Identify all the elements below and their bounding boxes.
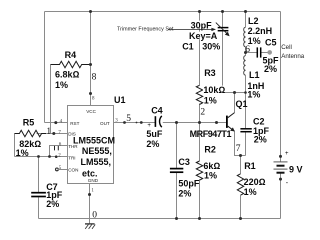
wire top VCC rail — [45, 11, 281, 13]
wire left border (VCC to RST) — [44, 12, 46, 123]
wire CON stub — [58, 169, 67, 171]
svg-text:1: 1 — [46, 127, 51, 137]
svg-text:R2: R2 — [204, 145, 216, 155]
svg-text:2%: 2% — [264, 64, 277, 74]
node wire mark a — [136, 122, 138, 124]
resistor R2 — [196, 145, 220, 181]
node R1 top — [239, 154, 242, 157]
svg-text:Key=A: Key=A — [189, 31, 218, 41]
node C3 bottom — [175, 217, 178, 220]
wire R4 left lead down to DIS node — [50, 65, 52, 134]
wire C7 vertical — [38, 157, 40, 219]
svg-text:Trimmer Frequency Set: Trimmer Frequency Set — [117, 26, 174, 32]
svg-text:C2: C2 — [253, 116, 265, 126]
svg-text:R1: R1 — [244, 161, 256, 171]
node rail/L2 — [244, 10, 247, 13]
inductor L2 — [244, 16, 272, 47]
svg-text:0: 0 — [92, 210, 97, 220]
svg-text:2%: 2% — [46, 199, 59, 209]
annotation Trimmer Frequency Set — [117, 26, 216, 32]
capacitor C5 — [257, 37, 279, 74]
svg-text:R4: R4 — [65, 50, 77, 60]
node wire mark b — [140, 121, 143, 124]
inductor L1 — [244, 56, 265, 100]
wire emitter vertical and jog — [235, 131, 246, 155]
op-amp U1 555 IC box — [68, 106, 116, 184]
svg-text:9 V: 9 V — [289, 164, 303, 174]
svg-text:R3: R3 — [204, 68, 216, 78]
svg-text:2%: 2% — [254, 134, 267, 144]
node R4 right — [89, 63, 92, 66]
ground symbol — [85, 219, 95, 229]
svg-text:etc.: etc. — [82, 169, 98, 179]
resistor R3 — [196, 68, 225, 105]
svg-text:10kΩ: 10kΩ — [203, 85, 225, 95]
svg-text:C4: C4 — [151, 105, 163, 115]
node TRI pin — [55, 155, 58, 158]
svg-text:Antenna: Antenna — [281, 53, 305, 60]
svg-text:VCC: VCC — [86, 109, 96, 114]
svg-text:220Ω: 220Ω — [244, 177, 266, 187]
svg-text:RST: RST — [70, 121, 79, 126]
svg-text:1%: 1% — [244, 187, 257, 197]
svg-text:C5: C5 — [265, 37, 277, 47]
svg-text:30pF: 30pF — [191, 21, 213, 31]
svg-text:+: + — [285, 151, 289, 157]
svg-text:2: 2 — [200, 108, 205, 118]
node L1/C2 — [244, 91, 247, 94]
capacitor C4 polarized — [146, 105, 163, 149]
svg-text:1%: 1% — [55, 80, 68, 90]
wire collector jog — [223, 92, 246, 94]
node rail/R3 — [198, 10, 201, 13]
wire R3 column rail to base — [199, 12, 201, 123]
node collector jog — [233, 91, 236, 94]
svg-text:L2: L2 — [248, 16, 259, 26]
node R3/R2/base — [198, 121, 201, 124]
node rail/R4 — [89, 10, 92, 13]
wire C5 to antenna — [261, 52, 268, 54]
svg-text:2.2nH: 2.2nH — [248, 26, 273, 36]
capacitor C7 — [31, 182, 63, 209]
node OUT pin — [123, 121, 126, 124]
capacitor C3 — [170, 157, 200, 199]
svg-text:5uF: 5uF — [146, 129, 163, 139]
capacitor C2 — [240, 116, 269, 144]
svg-text:1%: 1% — [204, 96, 217, 106]
net 11 label — [55, 146, 59, 151]
node battery bottom — [279, 178, 282, 181]
node R2 bottom — [198, 217, 201, 220]
wire OUT to base (net 5/2) — [114, 122, 227, 124]
svg-text:C3: C3 — [178, 157, 190, 167]
wire GND pin to rail — [89, 184, 91, 219]
wire THR corner (pin 6) — [50, 146, 68, 157]
node GND pin — [88, 193, 91, 196]
svg-text:5: 5 — [126, 114, 131, 124]
svg-text:50pF: 50pF — [178, 179, 200, 189]
wire collector vertical — [234, 93, 236, 113]
svg-text:6.8kΩ: 6.8kΩ — [55, 70, 80, 80]
svg-text:+: + — [147, 123, 151, 129]
wire R4 right vertical from rail to VCC pin — [90, 12, 92, 106]
node C7/TRI — [37, 155, 40, 158]
svg-text:2%: 2% — [178, 189, 191, 199]
CON pin open circle — [56, 168, 59, 171]
svg-text:C1: C1 — [182, 42, 194, 52]
svg-text:R5: R5 — [23, 117, 35, 127]
node RST pin — [54, 121, 57, 124]
battery 9V — [274, 151, 303, 187]
svg-text:Cell: Cell — [281, 44, 292, 51]
svg-text:8: 8 — [92, 72, 97, 82]
svg-text:CON: CON — [68, 168, 78, 173]
svg-text:MRF947T1: MRF947T1 — [190, 129, 232, 139]
wire DIS line (R5 to pin 7) — [37, 133, 68, 135]
svg-text:OUT: OUT — [100, 121, 110, 126]
wire R5 left lead down — [14, 134, 16, 157]
trimmer capacitor C1 — [182, 21, 229, 52]
node THR corner — [48, 155, 51, 158]
resistor R1 — [237, 161, 265, 197]
node DIS junction — [52, 132, 55, 135]
svg-text:30%: 30% — [202, 41, 220, 51]
wire battery column — [280, 12, 282, 219]
resistor R5 — [15, 117, 47, 158]
svg-text:GND: GND — [88, 178, 99, 183]
wire C3 vertical — [176, 123, 178, 219]
node VCC pin — [89, 92, 92, 95]
svg-text:U1: U1 — [114, 95, 126, 105]
node R1 bottom — [239, 217, 242, 220]
wire node 6 to C5 — [246, 52, 258, 54]
wire R2 leads — [199, 123, 201, 219]
svg-text:LM555CM: LM555CM — [73, 136, 115, 146]
wire R1 leads — [240, 156, 242, 219]
node 6 junction — [244, 51, 247, 54]
svg-text:2%: 2% — [146, 139, 159, 149]
svg-text:L1: L1 — [249, 70, 260, 80]
svg-text:1%: 1% — [204, 170, 217, 180]
node base wire — [215, 121, 218, 124]
wire RST pin 4 — [45, 122, 68, 124]
svg-text:1%: 1% — [247, 89, 260, 99]
node C3 top — [175, 121, 178, 124]
svg-text:1%: 1% — [16, 148, 29, 158]
svg-text:Q1: Q1 — [236, 99, 248, 109]
node rail/C1 — [221, 10, 224, 13]
transistor Q1 — [190, 99, 248, 139]
svg-text:TRI: TRI — [68, 155, 75, 160]
wire C1 column rail to collector jog — [222, 12, 224, 93]
cell antenna terminal — [267, 44, 304, 60]
svg-text:7: 7 — [236, 144, 241, 154]
svg-text:NE555,: NE555, — [82, 146, 112, 156]
wire L2/L1/C2 column — [245, 12, 247, 156]
resistor R4 — [51, 50, 91, 90]
svg-text:LM555,: LM555, — [81, 157, 112, 167]
node battery top — [279, 155, 282, 158]
wire TRI line (pin 2) — [15, 156, 68, 158]
wire bottom ground rail — [39, 218, 281, 220]
